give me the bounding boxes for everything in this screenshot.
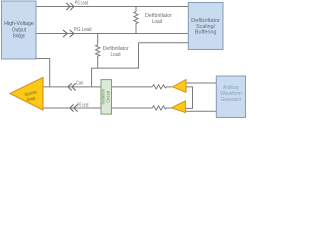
svg-text:Load: Load — [111, 52, 121, 58]
svg-text:Bridge: Bridge — [13, 34, 25, 40]
svg-text:Load: Load — [152, 19, 163, 25]
svg-text:High-Voltage: High-Voltage — [4, 21, 34, 27]
svg-text:Defibrillator: Defibrillator — [191, 18, 220, 24]
svg-text:Buffering: Buffering — [195, 30, 217, 36]
svg-text:Can: Can — [76, 80, 83, 86]
svg-text:PG Lead: PG Lead — [75, 1, 89, 7]
svg-text:Circuit: Circuit — [106, 90, 111, 103]
svg-text:PG Lead: PG Lead — [77, 103, 88, 109]
svg-text:PG Lead: PG Lead — [74, 27, 92, 33]
svg-text:Generator: Generator — [221, 97, 242, 103]
